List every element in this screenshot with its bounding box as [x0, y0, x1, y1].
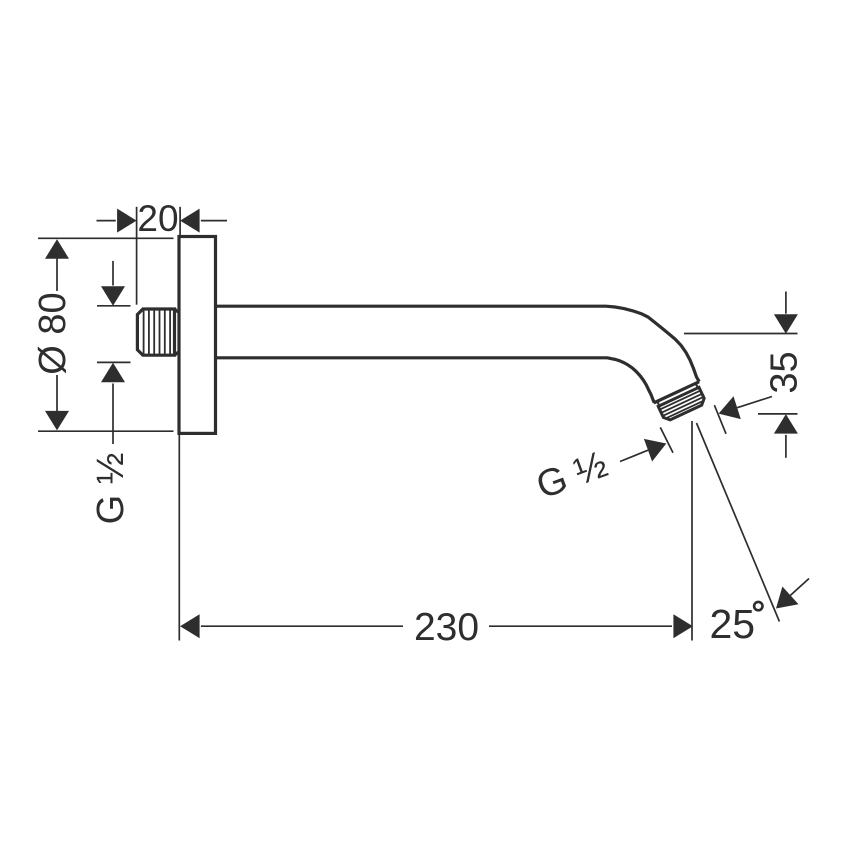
relief groove right notch — [695, 384, 698, 389]
dim G1/2 wall thread: up arrowhead — [101, 363, 125, 383]
shower arm outer (top) contour — [216, 306, 700, 382]
dim 20: left arrowhead — [117, 209, 137, 233]
svg-text:25: 25 — [710, 601, 756, 647]
dim 35: bottom arrowhead — [774, 414, 798, 434]
dim G1/2 wall thread: upper leader line — [112, 261, 114, 286]
dim 35: upper tail — [785, 292, 787, 314]
svg-text:G ½: G ½ — [90, 453, 132, 525]
dim 230: left arrowhead — [180, 614, 200, 638]
dim 20: right arrowhead — [180, 209, 200, 233]
dim 35: top arrowhead — [774, 314, 798, 334]
dim 230: left extension line (below flange) — [178, 435, 180, 641]
wall flange (side view) — [179, 237, 216, 434]
dim 25deg: arrowhead — [776, 587, 799, 609]
dim Ø80: top arrowhead — [45, 239, 69, 259]
dim G1/2 wall thread: down arrowhead — [101, 286, 125, 306]
dim G1/2 wall thread: top tick — [97, 305, 131, 307]
dim 20: right tail — [201, 220, 227, 222]
svg-text:G ½: G ½ — [531, 443, 613, 507]
outlet thread ridges — [660, 391, 705, 420]
nipple neck to flange — [175, 309, 180, 355]
dim 20: extension line at flange front face — [179, 207, 181, 236]
svg-text:230: 230 — [414, 606, 479, 649]
dim Ø80: bottom extension line — [38, 430, 174, 432]
dim 35: bottom extension line — [758, 413, 798, 415]
dim G1/2 outlet: upper-right tick — [714, 405, 726, 434]
dim 35: lower tail — [785, 435, 787, 458]
dim 20: extension line at thread face — [136, 207, 138, 305]
dim 25deg: degree symbol — [754, 602, 762, 610]
dim G1/2 outlet: lower-left leader tail — [620, 450, 648, 461]
dim G1/2 wall thread: lower leader line — [112, 384, 114, 445]
nipple thread ridges — [144, 309, 171, 355]
svg-text:35: 35 — [764, 351, 806, 393]
dim 35: top extension line — [684, 333, 798, 335]
dim Ø80: bottom arrowhead — [45, 411, 69, 431]
outlet thread outline — [658, 387, 706, 422]
dim G1/2 wall thread: bottom tick — [97, 361, 131, 363]
shower arm inner (bottom) contour — [216, 358, 655, 403]
dim G1/2 outlet: upper-right leader tail — [737, 397, 772, 408]
dim Ø80: top extension line — [38, 237, 174, 239]
dim G1/2 outlet: lower-left tick — [660, 427, 673, 452]
dim Ø80: dimension line segments — [56, 259, 58, 412]
dim G1/2 outlet: upper-right arrowhead — [719, 396, 741, 419]
svg-text:20: 20 — [137, 198, 178, 239]
threaded nipple G1/2 (wall side) — [137, 309, 174, 355]
dim 25deg: outlet axis extension line — [697, 423, 780, 622]
dim 230: dimension line segments — [201, 625, 672, 627]
dim 230: right arrowhead — [673, 614, 693, 638]
dim 230: right extension line (below outlet) — [691, 421, 693, 641]
relief groove left notch — [657, 401, 660, 406]
arm tip: shoulder, relief groove and outlet thread (rotated 25deg) — [654, 382, 709, 423]
dim G1/2 outlet: lower-left arrowhead — [644, 439, 666, 462]
dim 25deg: arrow tail — [790, 579, 809, 596]
dim 20: left tail — [97, 220, 116, 222]
svg-text:Ø 80: Ø 80 — [32, 292, 74, 374]
shoulder face — [654, 382, 699, 403]
